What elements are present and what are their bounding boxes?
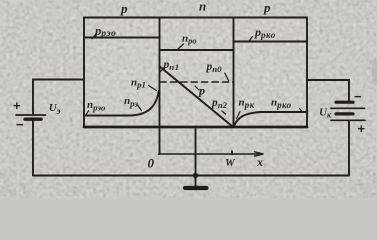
emitter junction line (extends to x-axis origin O) — [159, 18, 161, 155]
emitter lead wire — [33, 80, 84, 115]
n_рко level line — [261, 111, 307, 113]
n_ро level line (base majority) — [160, 49, 234, 51]
label tick p_п1 — [161, 68, 165, 72]
ground bar — [185, 186, 207, 190]
x axis — [159, 153, 262, 155]
battery Uк cell2 short plate — [336, 112, 353, 115]
battery Uк cell1 long plate — [331, 107, 365, 109]
label tick n_рко — [300, 109, 303, 113]
svg-text:x: x — [256, 155, 263, 169]
concentration zero baseline — [84, 126, 307, 129]
label tick p average — [195, 86, 199, 90]
x axis arrowhead — [255, 152, 264, 156]
label tick p_по — [225, 73, 229, 81]
transistor structure top edge — [84, 17, 307, 19]
label tick p_рко — [249, 37, 253, 42]
base terminal wire to ground — [195, 127, 197, 176]
collector junction line — [233, 18, 235, 128]
emitter region left edge — [83, 18, 85, 128]
battery Uк cell1 short plate — [336, 101, 353, 104]
ground junction dot — [193, 173, 198, 178]
collector lead wire — [307, 80, 349, 101]
collector region right edge — [306, 18, 308, 128]
label tick n_рэо — [86, 111, 89, 115]
ground stub — [195, 176, 197, 187]
svg-text:0: 0 — [148, 156, 155, 171]
svg-text:W: W — [225, 157, 236, 169]
wire from left battery to bottom — [32, 121, 34, 176]
W tick on axis — [231, 151, 233, 154]
n_рэо level line — [84, 115, 131, 117]
svg-text:+: + — [358, 121, 366, 136]
svg-text:p: p — [120, 1, 128, 16]
label tick n_рк — [237, 112, 241, 119]
label tick n_рэ — [138, 106, 142, 111]
p_по equilibrium dashed line — [160, 81, 234, 83]
faint scan smudge at right edge — [372, 58, 377, 86]
battery Uк cell2 long plate — [331, 119, 365, 121]
svg-text:+: + — [13, 98, 21, 113]
battery Uэ short negative plate — [25, 117, 41, 120]
label tick n_ро — [178, 44, 184, 50]
svg-text:−: − — [354, 89, 362, 104]
svg-text:n: n — [199, 0, 206, 14]
wire from right battery to bottom — [348, 121, 350, 176]
svg-text:−: − — [16, 117, 24, 132]
label tick p_рэо — [92, 35, 96, 39]
bottom circuit wire — [33, 175, 349, 177]
battery Uэ long positive plate — [16, 114, 46, 116]
label tick n_р1 — [149, 86, 157, 91]
n_рэ curve rising to emitter junction — [131, 91, 159, 116]
label tick p_п2 — [222, 111, 226, 114]
n_рк curve rising from collector junction — [234, 112, 261, 127]
p_рэо level line — [84, 37, 160, 39]
svg-text:p: p — [198, 84, 205, 98]
p_рко level line — [234, 41, 308, 43]
p_п1..p_п2 hole distribution diagonal in base — [160, 67, 233, 127]
svg-text:p: p — [263, 0, 271, 15]
slightly lighter paper inside the diagram — [84, 17, 307, 127]
